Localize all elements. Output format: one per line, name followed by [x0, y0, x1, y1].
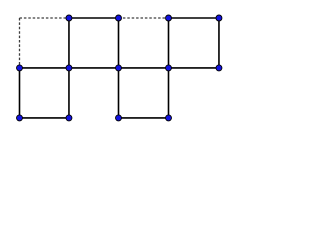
node row3 col3	[116, 115, 122, 121]
node row2 col5	[216, 65, 222, 71]
wire vertical x=168.5 bottom	[168, 68, 170, 118]
node row3 col2	[66, 115, 72, 121]
node row2 col3	[116, 65, 122, 71]
wire row2 full horizontal	[20, 67, 219, 69]
wire row1 segment D-E	[169, 17, 219, 19]
node row1 col2	[66, 15, 72, 21]
node row1 col4	[166, 15, 172, 21]
node row2 col1	[17, 65, 23, 71]
wire vertical x=118.5 bottom	[118, 68, 120, 118]
node row2 col4	[166, 65, 172, 71]
node row2 col2	[66, 65, 72, 71]
wire row1 segment B-C	[69, 17, 119, 19]
node row1 col3	[116, 15, 122, 21]
dashed edge left of ghost square (19.5,18)-(19.5,67.9)	[19, 18, 21, 68]
wire row3 segment right	[119, 117, 169, 119]
wire vertical x=19.5 bottom	[19, 68, 21, 118]
dashed edge top of second ghost square (118.5,18)-(168.5,18)	[119, 17, 169, 19]
node row1 col5	[216, 15, 222, 21]
wire vertical x=168.5 top	[168, 18, 170, 68]
node row3 col1	[17, 115, 23, 121]
wire vertical x=68.95 top	[68, 18, 70, 68]
wire vertical x=218.95 top	[218, 18, 220, 68]
wire vertical x=118.5 top	[118, 18, 120, 68]
wire vertical x=68.95 bottom	[68, 68, 70, 118]
dashed edge top of ghost square (19.5,18)-(68.95,18)	[20, 17, 69, 19]
wire row3 segment left	[20, 117, 69, 119]
node row3 col4	[166, 115, 172, 121]
